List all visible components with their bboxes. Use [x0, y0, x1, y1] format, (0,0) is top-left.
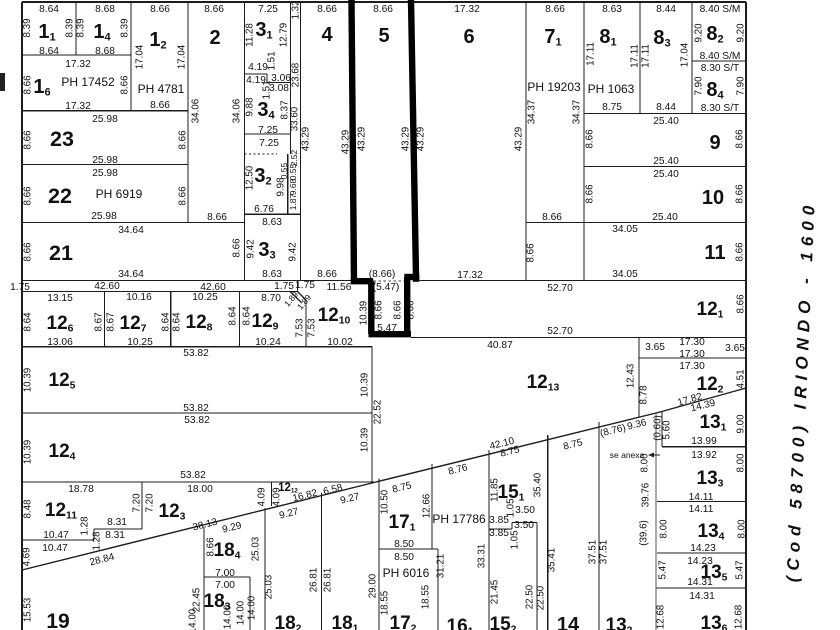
svg-text:8.75: 8.75 — [602, 102, 622, 113]
svg-text:10.39: 10.39 — [359, 301, 370, 326]
svg-text:8.64: 8.64 — [39, 46, 59, 57]
svg-text:25.03: 25.03 — [264, 574, 275, 599]
svg-text:43.29: 43.29 — [357, 127, 368, 152]
svg-text:7.25: 7.25 — [258, 125, 278, 136]
svg-text:22.52: 22.52 — [373, 400, 384, 425]
svg-text:33.60: 33.60 — [290, 106, 301, 131]
svg-text:17.32: 17.32 — [65, 101, 91, 112]
svg-text:2: 2 — [209, 27, 220, 49]
svg-text:8.66: 8.66 — [317, 269, 337, 280]
svg-text:25.98: 25.98 — [92, 168, 118, 179]
svg-text:8.67: 8.67 — [106, 312, 117, 331]
svg-text:18.78: 18.78 — [68, 484, 94, 495]
svg-text:8.68: 8.68 — [95, 46, 115, 57]
svg-text:PH 17452: PH 17452 — [61, 75, 115, 89]
svg-text:4: 4 — [321, 24, 333, 46]
svg-text:8.64: 8.64 — [172, 312, 183, 332]
svg-text:12.43: 12.43 — [626, 363, 637, 388]
svg-text:43.29: 43.29 — [416, 127, 427, 152]
svg-text:9.88: 9.88 — [245, 97, 256, 117]
svg-text:8.66: 8.66 — [178, 130, 189, 150]
svg-text:8.66: 8.66 — [120, 75, 131, 95]
svg-text:3.50: 3.50 — [515, 505, 535, 516]
svg-text:23: 23 — [50, 127, 74, 151]
svg-text:8.00: 8.00 — [737, 519, 748, 539]
svg-text:21: 21 — [49, 241, 73, 265]
svg-text:53.82: 53.82 — [183, 403, 209, 414]
svg-text:53.82: 53.82 — [184, 415, 210, 426]
svg-text:8.44: 8.44 — [656, 4, 676, 15]
svg-text:1.05: 1.05 — [510, 530, 521, 550]
svg-text:8.50: 8.50 — [394, 552, 414, 563]
svg-text:26.81: 26.81 — [323, 568, 334, 593]
svg-text:8.31: 8.31 — [105, 530, 125, 541]
svg-text:8.66: 8.66 — [735, 129, 746, 149]
svg-text:8.67: 8.67 — [94, 312, 105, 331]
svg-text:43.29: 43.29 — [301, 127, 312, 152]
svg-text:18.00: 18.00 — [187, 484, 213, 495]
svg-text:43.29: 43.29 — [341, 130, 352, 155]
svg-text:8.66: 8.66 — [736, 294, 747, 314]
svg-text:25.98: 25.98 — [91, 211, 117, 222]
svg-text:10.47: 10.47 — [43, 530, 69, 541]
svg-text:8.39: 8.39 — [76, 18, 87, 37]
svg-text:8.39: 8.39 — [65, 18, 76, 37]
svg-text:2.52: 2.52 — [289, 149, 299, 166]
svg-text:14.31: 14.31 — [687, 577, 713, 588]
svg-text:8.66: 8.66 — [393, 300, 404, 320]
svg-text:17.32: 17.32 — [457, 270, 483, 281]
svg-text:10.39: 10.39 — [360, 373, 371, 398]
svg-text:22.45: 22.45 — [192, 587, 203, 612]
svg-text:35.41: 35.41 — [547, 548, 558, 573]
svg-text:8.44: 8.44 — [656, 102, 676, 113]
svg-text:25.40: 25.40 — [652, 212, 678, 223]
svg-text:29.00: 29.00 — [368, 573, 379, 598]
svg-text:25.03: 25.03 — [251, 536, 262, 561]
svg-text:4.09: 4.09 — [272, 487, 283, 506]
svg-text:8.70: 8.70 — [261, 293, 281, 304]
svg-text:10.39: 10.39 — [360, 428, 371, 453]
svg-text:37.51: 37.51 — [588, 540, 599, 565]
svg-text:8.66: 8.66 — [585, 184, 596, 204]
svg-text:31.21: 31.21 — [436, 554, 447, 579]
svg-text:34.64: 34.64 — [118, 225, 144, 236]
svg-text:25.98: 25.98 — [92, 114, 118, 125]
svg-text:4.69: 4.69 — [22, 547, 33, 566]
svg-text:34.37: 34.37 — [527, 100, 538, 125]
svg-text:8.66: 8.66 — [178, 186, 189, 206]
svg-text:8.64: 8.64 — [39, 4, 59, 15]
svg-text:PH 6919: PH 6919 — [96, 187, 143, 201]
svg-text:8.66: 8.66 — [373, 4, 393, 15]
svg-text:8.66: 8.66 — [206, 537, 217, 557]
svg-text:34.05: 34.05 — [612, 269, 638, 280]
svg-text:12.68: 12.68 — [734, 604, 745, 629]
svg-text:7.25: 7.25 — [258, 4, 278, 15]
svg-text:14.00: 14.00 — [236, 600, 247, 625]
svg-text:17.11: 17.11 — [586, 42, 597, 66]
svg-text:39.76: 39.76 — [641, 482, 652, 507]
svg-text:14.23: 14.23 — [687, 556, 713, 567]
svg-text:9.20: 9.20 — [736, 23, 747, 43]
svg-text:52.70: 52.70 — [547, 326, 573, 337]
svg-text:10.47: 10.47 — [42, 543, 68, 554]
svg-text:14.31: 14.31 — [689, 591, 715, 602]
svg-text:18.55: 18.55 — [421, 584, 432, 609]
svg-text:12.66: 12.66 — [422, 493, 433, 518]
svg-text:(0.60): (0.60) — [653, 415, 664, 441]
svg-text:8.66: 8.66 — [542, 212, 562, 223]
svg-text:5.47: 5.47 — [377, 323, 397, 334]
svg-text:8.64: 8.64 — [242, 306, 253, 326]
svg-text:8.63: 8.63 — [262, 269, 282, 280]
svg-text:8.66: 8.66 — [526, 243, 537, 263]
svg-text:PH 6016: PH 6016 — [383, 566, 430, 580]
svg-text:8.63: 8.63 — [602, 4, 622, 15]
svg-text:17.30: 17.30 — [679, 337, 705, 348]
svg-text:23.68: 23.68 — [291, 62, 302, 87]
svg-text:8.66: 8.66 — [23, 186, 34, 206]
svg-text:7.53: 7.53 — [307, 318, 318, 338]
svg-text:3.85: 3.85 — [489, 528, 509, 539]
svg-text:25.40: 25.40 — [653, 116, 679, 127]
svg-text:14.23: 14.23 — [690, 543, 716, 554]
svg-text:17.32: 17.32 — [454, 4, 480, 15]
svg-text:8.39: 8.39 — [22, 18, 33, 37]
svg-text:8.66: 8.66 — [232, 238, 243, 258]
svg-text:8.66: 8.66 — [374, 300, 385, 320]
svg-text:13.15: 13.15 — [47, 293, 73, 304]
svg-text:34.05: 34.05 — [612, 224, 638, 235]
svg-text:10.50: 10.50 — [380, 489, 391, 514]
svg-text:8.40 S/M: 8.40 S/M — [700, 51, 741, 62]
svg-text:1.28: 1.28 — [80, 516, 91, 536]
svg-text:18.55: 18.55 — [380, 590, 391, 615]
svg-text:8.50: 8.50 — [394, 539, 414, 550]
svg-text:14.00: 14.00 — [223, 604, 234, 629]
svg-text:(5.47): (5.47) — [373, 282, 400, 293]
svg-text:11.85: 11.85 — [490, 478, 501, 502]
svg-text:8.66: 8.66 — [207, 212, 227, 223]
svg-text:7.90: 7.90 — [694, 76, 705, 96]
svg-text:35.40: 35.40 — [533, 472, 544, 497]
svg-text:14: 14 — [557, 614, 580, 630]
svg-text:13.92: 13.92 — [691, 450, 717, 461]
svg-text:8.66: 8.66 — [545, 4, 565, 15]
svg-text:19: 19 — [46, 610, 69, 630]
svg-text:33.31: 33.31 — [477, 544, 488, 569]
svg-text:8.64: 8.64 — [23, 312, 34, 332]
svg-text:8.66: 8.66 — [23, 130, 34, 150]
svg-text:34.37: 34.37 — [572, 100, 583, 125]
svg-text:22: 22 — [48, 184, 72, 208]
svg-text:11: 11 — [704, 242, 725, 264]
svg-text:3.65: 3.65 — [645, 342, 665, 353]
svg-text:8.48: 8.48 — [23, 499, 34, 519]
svg-text:10.39: 10.39 — [23, 368, 34, 393]
svg-text:43.29: 43.29 — [514, 127, 525, 152]
svg-text:8.63: 8.63 — [262, 217, 282, 228]
svg-text:0.55: 0.55 — [279, 162, 289, 179]
svg-text:1.75: 1.75 — [295, 280, 315, 291]
svg-text:8.39: 8.39 — [120, 18, 131, 37]
svg-text:PH 17786: PH 17786 — [432, 512, 486, 526]
svg-text:10.16: 10.16 — [126, 292, 152, 303]
svg-text:7.20: 7.20 — [132, 493, 143, 513]
svg-text:1.05: 1.05 — [506, 498, 517, 518]
svg-text:14.11: 14.11 — [689, 504, 714, 515]
svg-text:8.66: 8.66 — [406, 300, 417, 320]
svg-text:22.50: 22.50 — [525, 584, 536, 609]
svg-text:14.11: 14.11 — [689, 492, 714, 503]
svg-text:(8.66): (8.66) — [369, 269, 396, 280]
svg-text:1.51: 1.51 — [262, 80, 273, 99]
svg-text:1.32: 1.32 — [291, 0, 302, 19]
svg-text:21.45: 21.45 — [490, 579, 501, 604]
svg-text:17.32: 17.32 — [65, 59, 91, 70]
svg-text:25.40: 25.40 — [653, 156, 679, 167]
svg-text:3.65: 3.65 — [725, 343, 745, 354]
svg-text:17.04: 17.04 — [135, 44, 146, 69]
svg-text:12.68: 12.68 — [656, 604, 667, 629]
svg-text:26.81: 26.81 — [309, 568, 320, 593]
svg-text:10.24: 10.24 — [255, 337, 281, 348]
svg-text:8.66: 8.66 — [150, 4, 170, 15]
svg-text:7.53: 7.53 — [295, 318, 306, 338]
svg-text:7.00: 7.00 — [215, 580, 235, 591]
svg-text:17.30: 17.30 — [679, 349, 705, 360]
svg-text:34.06: 34.06 — [232, 98, 243, 123]
svg-text:8.66: 8.66 — [23, 242, 34, 262]
svg-text:17.04: 17.04 — [680, 42, 691, 67]
svg-text:8.40 S/M: 8.40 S/M — [700, 4, 741, 15]
svg-text:17.11: 17.11 — [630, 44, 641, 68]
svg-text:4.51: 4.51 — [736, 369, 747, 388]
svg-text:25.98: 25.98 — [92, 155, 118, 166]
svg-text:9.42: 9.42 — [288, 242, 299, 261]
svg-text:8.66: 8.66 — [735, 184, 746, 204]
svg-text:PH 1063: PH 1063 — [588, 82, 635, 96]
svg-text:9.42: 9.42 — [246, 239, 257, 258]
svg-text:53.82: 53.82 — [180, 470, 206, 481]
svg-text:8.66: 8.66 — [204, 4, 224, 15]
svg-text:5: 5 — [378, 25, 389, 47]
svg-text:11.28: 11.28 — [245, 23, 256, 47]
svg-text:8.00: 8.00 — [659, 519, 670, 539]
svg-text:8.64: 8.64 — [228, 306, 239, 326]
svg-text:14.00: 14.00 — [247, 595, 258, 620]
svg-text:1.28: 1.28 — [92, 531, 103, 551]
svg-text:14.00: 14.00 — [188, 608, 199, 630]
svg-text:8.31: 8.31 — [107, 517, 127, 528]
svg-text:9.00: 9.00 — [736, 414, 747, 434]
svg-text:10.02: 10.02 — [327, 337, 353, 348]
svg-text:12.79: 12.79 — [279, 23, 290, 48]
svg-text:10.25: 10.25 — [192, 292, 218, 303]
svg-text:9: 9 — [709, 132, 720, 154]
svg-text:12.50: 12.50 — [245, 165, 256, 190]
svg-text:8.00: 8.00 — [640, 453, 651, 473]
svg-text:17.04: 17.04 — [177, 44, 188, 69]
svg-text:PH 19203: PH 19203 — [527, 80, 581, 94]
svg-text:17.11: 17.11 — [641, 44, 652, 68]
svg-text:13.99: 13.99 — [691, 436, 717, 447]
svg-text:22.50: 22.50 — [536, 585, 547, 610]
svg-text:8.66: 8.66 — [150, 100, 170, 111]
svg-text:9.20: 9.20 — [694, 23, 705, 43]
svg-text:8.64: 8.64 — [161, 312, 172, 332]
svg-text:11.56: 11.56 — [327, 282, 352, 293]
svg-text:8.68: 8.68 — [95, 4, 115, 15]
svg-text:17.30: 17.30 — [679, 361, 705, 372]
svg-text:34.06: 34.06 — [191, 98, 202, 123]
svg-text:4.19: 4.19 — [248, 62, 268, 73]
svg-text:8.00: 8.00 — [736, 453, 747, 473]
svg-text:53.82: 53.82 — [183, 348, 209, 359]
svg-text:8.30 S/T: 8.30 S/T — [701, 63, 740, 74]
svg-text:13.06: 13.06 — [47, 337, 73, 348]
svg-text:8.30 S/T: 8.30 S/T — [701, 103, 740, 114]
svg-text:42.60: 42.60 — [94, 281, 120, 292]
svg-text:5.47: 5.47 — [735, 560, 746, 579]
svg-text:25.40: 25.40 — [653, 169, 679, 180]
svg-text:6.76: 6.76 — [254, 204, 274, 215]
svg-text:7.90: 7.90 — [736, 76, 747, 96]
svg-text:5.47: 5.47 — [658, 560, 669, 579]
svg-text:10.25: 10.25 — [127, 337, 153, 348]
svg-text:8.66: 8.66 — [23, 75, 34, 95]
svg-text:8.66: 8.66 — [585, 129, 596, 149]
svg-text:15.53: 15.53 — [23, 597, 34, 622]
svg-text:6: 6 — [463, 26, 474, 48]
svg-text:(39.6): (39.6) — [639, 520, 650, 546]
svg-text:8.66: 8.66 — [317, 4, 337, 15]
svg-text:34.64: 34.64 — [118, 269, 144, 280]
svg-text:8.78: 8.78 — [639, 385, 650, 405]
svg-text:43.29: 43.29 — [401, 127, 412, 152]
svg-text:52.70: 52.70 — [547, 283, 573, 294]
svg-text:37.51: 37.51 — [599, 540, 610, 565]
svg-text:8.66: 8.66 — [735, 242, 746, 262]
svg-text:3.50: 3.50 — [514, 520, 534, 531]
svg-text:7.20: 7.20 — [145, 493, 156, 513]
svg-text:1.51: 1.51 — [267, 51, 278, 70]
svg-text:10: 10 — [702, 187, 724, 209]
svg-text:7.25: 7.25 — [259, 138, 279, 149]
svg-text:40.87: 40.87 — [487, 340, 513, 351]
svg-text:4.09: 4.09 — [257, 487, 268, 506]
svg-text:PH 4781: PH 4781 — [138, 82, 185, 96]
svg-text:7.00: 7.00 — [215, 568, 235, 579]
svg-text:10.39: 10.39 — [23, 440, 34, 465]
svg-text:1.75: 1.75 — [10, 282, 30, 293]
